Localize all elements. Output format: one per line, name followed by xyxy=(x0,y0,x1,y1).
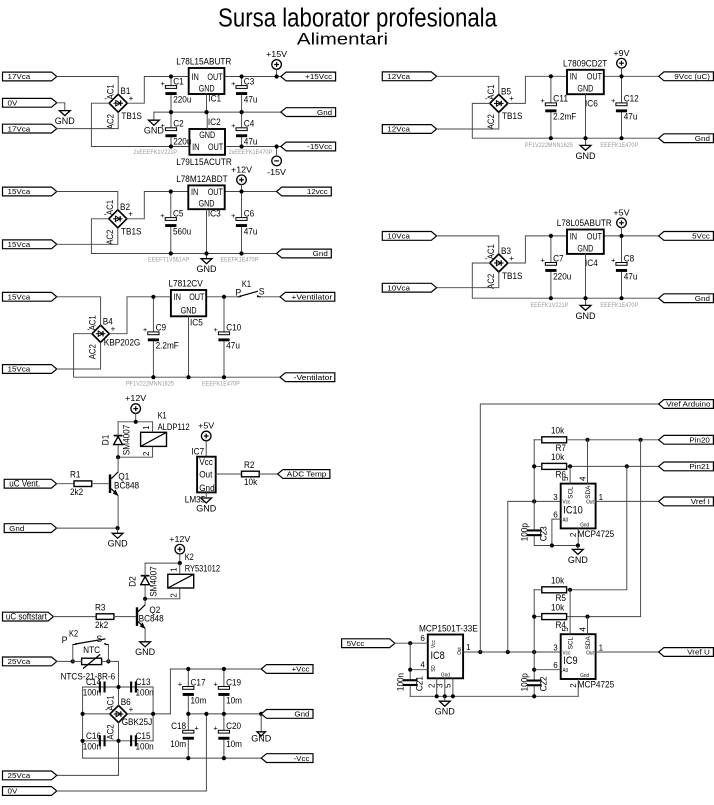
svg-text:SM4007: SM4007 xyxy=(122,425,132,456)
relay coil K1 ALDP112 xyxy=(141,422,167,457)
wire pullup vertical IC9 xyxy=(533,590,535,679)
svg-text:C3: C3 xyxy=(244,76,255,86)
bridge rectifier B5 xyxy=(485,84,523,129)
wire pullup vertical IC10 xyxy=(533,440,535,502)
junction C5 bottom xyxy=(169,251,173,255)
wire snubber bottom row xyxy=(83,740,154,742)
svg-text:Out: Out xyxy=(457,647,463,655)
svg-text:6: 6 xyxy=(420,634,425,643)
wire B2 minus to gnd rail xyxy=(91,219,276,254)
svg-text:C2: C2 xyxy=(173,119,184,129)
svg-text:Gnd: Gnd xyxy=(441,672,450,678)
svg-text:GND: GND xyxy=(196,503,217,513)
regulator IC2 L79L15ACUTR xyxy=(176,117,232,167)
svg-text:47u: 47u xyxy=(244,137,258,147)
net flag 5Vcc xyxy=(659,232,714,241)
junction C1 bottom xyxy=(169,110,173,114)
wire IC8 pin2 stub xyxy=(436,678,438,696)
wire B5 minus to gnd rail xyxy=(472,103,658,138)
svg-text:+9V: +9V xyxy=(613,48,629,58)
svg-text:AC2: AC2 xyxy=(105,114,115,129)
svg-text:OUT: OUT xyxy=(189,292,205,302)
supply -15V xyxy=(267,156,286,177)
resistor R3 2k2 xyxy=(95,602,114,629)
junction B6 AC2 snubber xyxy=(116,739,120,743)
svg-text:K2: K2 xyxy=(69,629,78,639)
wire IC10 SCL riser xyxy=(569,466,571,483)
svg-text:+: + xyxy=(143,325,148,334)
svg-text:+15Vcc: +15Vcc xyxy=(305,72,332,81)
wire +12V to relay2 node xyxy=(179,554,181,563)
junction B6 AC1 snubber xyxy=(116,685,120,689)
svg-text:10m: 10m xyxy=(170,739,186,749)
wire Gnd to Q1 emitter xyxy=(57,527,118,529)
svg-text:+: + xyxy=(611,96,616,105)
svg-text:15Vca: 15Vca xyxy=(8,240,32,249)
svg-text:15Vca: 15Vca xyxy=(8,293,32,302)
wire B3 plus to 5V rail xyxy=(508,236,567,263)
junction IC10 gnd node xyxy=(576,543,580,547)
svg-text:SD: SD xyxy=(431,665,437,672)
svg-text:R3: R3 xyxy=(95,602,106,612)
wire IC8 pin3 stub xyxy=(444,678,446,696)
svg-text:Gnd: Gnd xyxy=(580,673,589,679)
wire gnd rail section1 horizontal xyxy=(154,111,281,113)
wire IC1 GND pin xyxy=(206,94,208,112)
net flag uC Vent. xyxy=(4,478,56,489)
voltage reference IC8 MCP1501T-33E xyxy=(419,624,478,688)
junction C3 top xyxy=(240,74,244,78)
svg-text:560u: 560u xyxy=(173,226,191,236)
wire IC9 SCL riser xyxy=(569,590,571,634)
net flag Vref U xyxy=(659,648,714,657)
net flag Gnd section5 xyxy=(659,294,714,303)
wire IC4 GND pin xyxy=(585,254,587,298)
part code C6 xyxy=(221,257,259,264)
svg-text:A0: A0 xyxy=(563,668,569,674)
transistor Q1 BC848 xyxy=(109,471,139,496)
wire B1 plus to +15 rail xyxy=(127,77,189,104)
svg-text:C13: C13 xyxy=(136,677,151,687)
svg-text:-: - xyxy=(104,94,107,103)
junction IC10 Vcc pullups xyxy=(532,499,536,503)
ground symbol section4 xyxy=(576,138,597,161)
svg-text:C19: C19 xyxy=(226,677,241,687)
svg-text:C20: C20 xyxy=(226,721,241,731)
resistor R1 2k2 xyxy=(70,470,92,497)
resistor R2 10k xyxy=(242,460,260,487)
junction IC3 gnd xyxy=(204,251,208,255)
svg-text:OUT: OUT xyxy=(207,72,223,82)
net flag 25Vca (bottom) xyxy=(3,771,57,780)
wire snubber right column xyxy=(152,687,154,741)
svg-text:Sursa laborator profesionala: Sursa laborator profesionala xyxy=(218,5,498,33)
resistor R7 10k xyxy=(542,426,567,453)
svg-text:D1: D1 xyxy=(101,435,111,446)
part code C10 xyxy=(202,380,240,387)
capacitor C3 xyxy=(231,76,257,112)
part code C9 xyxy=(126,380,174,387)
supply +5V LM35 xyxy=(198,421,214,441)
wire C23 top segment xyxy=(533,501,535,529)
capacitor C21 xyxy=(396,673,425,691)
junction R6 left tee xyxy=(532,464,536,468)
relay K1 name xyxy=(158,410,167,420)
svg-text:Out: Out xyxy=(586,500,594,506)
junction pin2 gnd xyxy=(435,694,439,698)
svg-text:IC8: IC8 xyxy=(431,650,445,662)
junction C11 bottom xyxy=(549,136,553,140)
junction C1 top xyxy=(169,74,173,78)
svg-text:Gnd: Gnd xyxy=(317,108,332,117)
net flag uC softstart xyxy=(3,611,54,622)
junction B6 minus tee xyxy=(81,712,85,716)
switch K2 contact xyxy=(73,639,109,645)
wire +5V to IC7 xyxy=(205,441,207,457)
regulator IC1 L78L15ABUTR xyxy=(176,57,231,104)
capacitor C7 xyxy=(540,236,571,298)
wire R2 to ADC Temp flag xyxy=(259,473,277,475)
junction SD tee xyxy=(408,668,412,672)
svg-text:EEEFK1V221P: EEEFK1V221P xyxy=(531,302,569,309)
net flag Gnd bottom xyxy=(261,710,313,719)
svg-text:Out: Out xyxy=(586,650,594,656)
title xyxy=(218,5,498,33)
capacitor C12 xyxy=(611,76,639,138)
wire gnd rail section1 xyxy=(153,112,155,120)
svg-text:100p: 100p xyxy=(520,673,530,691)
supply +12V relay1 xyxy=(125,393,146,413)
net flag +15Vcc xyxy=(281,72,336,81)
net flag 5Vcc input xyxy=(342,639,395,648)
svg-text:1: 1 xyxy=(466,643,471,652)
svg-text:-Ventilator: -Ventilator xyxy=(294,373,333,382)
junction Vref Arduino riser xyxy=(478,650,482,654)
svg-text:IC6: IC6 xyxy=(585,98,598,108)
switch K2 S label xyxy=(96,634,102,644)
svg-text:KBP202G: KBP202G xyxy=(104,338,141,348)
svg-text:+: + xyxy=(213,680,218,689)
wire relay2 bottom link xyxy=(145,598,180,600)
capacitor C20 xyxy=(213,714,242,758)
DAC IC9 MCP4725 xyxy=(553,627,614,690)
svg-text:6: 6 xyxy=(553,511,558,520)
svg-text:6: 6 xyxy=(553,661,558,670)
svg-text:2.2mF: 2.2mF xyxy=(553,112,577,122)
junction Pin20 bus xyxy=(639,438,643,442)
svg-text:R1: R1 xyxy=(70,470,81,480)
junction Pin21 bus xyxy=(625,464,629,468)
svg-text:+5V: +5V xyxy=(198,421,214,431)
svg-text:Pin21: Pin21 xyxy=(689,462,710,471)
ground symbol bottom left xyxy=(251,714,272,744)
svg-text:EEEFK1E470P: EEEFK1E470P xyxy=(221,257,259,264)
svg-text:+: + xyxy=(161,121,166,130)
net flag 15Vca fan (bottom) xyxy=(3,365,57,374)
svg-text:C11: C11 xyxy=(553,94,568,104)
wire IC5 OUT to switch xyxy=(206,296,237,298)
subtitle xyxy=(297,30,388,48)
junction C6 top xyxy=(239,189,243,193)
svg-text:B2: B2 xyxy=(120,202,130,212)
junction C20 bottom xyxy=(222,756,226,760)
svg-text:2: 2 xyxy=(569,532,578,537)
wire K2 contact left riser xyxy=(72,645,74,662)
resistor R4 10k xyxy=(542,602,567,629)
svg-text:L78L05ABUTR: L78L05ABUTR xyxy=(557,218,612,228)
svg-text:C5: C5 xyxy=(173,208,184,218)
svg-text:100n: 100n xyxy=(136,741,154,751)
wire IC2 GND pin xyxy=(206,112,208,129)
net flag Gnd section4 xyxy=(659,134,714,143)
svg-text:+: + xyxy=(213,724,218,733)
wire IC10 SDA riser xyxy=(587,440,589,484)
svg-text:TB1S: TB1S xyxy=(502,271,523,281)
wire B2 plus to 12V rail xyxy=(127,192,189,219)
net flag 12vcc xyxy=(277,187,332,196)
supply +12V relay2 xyxy=(169,534,190,554)
regulator IC4 L78L05ABUTR xyxy=(557,218,612,268)
svg-text:GND: GND xyxy=(251,734,272,744)
capacitor C23 xyxy=(520,523,549,541)
junction SDA pullup xyxy=(585,438,589,442)
svg-text:GBK25J: GBK25J xyxy=(122,717,153,727)
svg-text:L79L15ACUTR: L79L15ACUTR xyxy=(176,157,232,167)
svg-text:2xEEEFK1E470P: 2xEEEFK1E470P xyxy=(229,149,273,156)
junction NTC left xyxy=(71,659,75,663)
wire snubber top row xyxy=(83,686,154,688)
svg-text:OUT: OUT xyxy=(587,231,603,241)
junction R4 left tee xyxy=(532,615,536,619)
junction D1 collector xyxy=(116,455,120,459)
svg-text:TB1S: TB1S xyxy=(121,227,142,237)
net flag +Vcc xyxy=(261,665,313,674)
svg-text:PF1V222MNN1625: PF1V222MNN1625 xyxy=(525,142,573,149)
wire -Vcc rail xyxy=(83,757,262,759)
svg-text:K1: K1 xyxy=(242,279,251,289)
junction C8 bottom xyxy=(619,296,623,300)
svg-text:C12: C12 xyxy=(624,94,639,104)
net flag 15Vca fan (top) xyxy=(3,292,57,301)
svg-text:P: P xyxy=(235,287,241,297)
wire B6 AC2 to 25Vca xyxy=(57,723,119,776)
svg-text:10m: 10m xyxy=(191,695,207,705)
svg-text:220u: 220u xyxy=(173,94,191,104)
part code C4 xyxy=(229,149,273,156)
junction C9 top xyxy=(151,295,155,299)
svg-text:IN: IN xyxy=(191,187,198,197)
wire B6 plus lead xyxy=(127,669,261,714)
svg-text:L78L15ABUTR: L78L15ABUTR xyxy=(176,57,231,67)
svg-text:47u: 47u xyxy=(226,341,240,351)
supply +12V section2 xyxy=(231,164,252,184)
wire collector Q2 xyxy=(144,599,146,605)
svg-text:Gnd: Gnd xyxy=(580,522,589,528)
wire relay1 top link xyxy=(118,421,153,423)
svg-text:+5V: +5V xyxy=(613,207,629,217)
wire 5Vcc to IC8 xyxy=(395,642,428,644)
bridge rectifier B4 xyxy=(87,315,140,359)
svg-text:IC3: IC3 xyxy=(208,209,221,219)
svg-text:+: + xyxy=(160,211,165,220)
svg-text:C10: C10 xyxy=(226,323,241,333)
capacitor C1 xyxy=(161,76,192,112)
svg-text:K2: K2 xyxy=(185,552,194,562)
junction C3 bottom xyxy=(240,110,244,114)
junction D2 collector xyxy=(143,597,147,601)
junction C22 gnd rail xyxy=(532,694,536,698)
wire -15V stub xyxy=(276,147,278,157)
capacitor C14 xyxy=(83,677,106,697)
svg-text:R4: R4 xyxy=(556,620,567,630)
svg-text:2k2: 2k2 xyxy=(95,620,108,630)
svg-text:SM4007: SM4007 xyxy=(149,566,159,597)
svg-text:S: S xyxy=(96,634,102,644)
svg-text:B6: B6 xyxy=(121,697,131,707)
thermistor NTC xyxy=(82,645,102,669)
svg-text:-15Vcc: -15Vcc xyxy=(307,142,332,151)
diode D1 SM4007 xyxy=(101,425,132,458)
svg-text:9Vcc (uC): 9Vcc (uC) xyxy=(674,72,710,81)
capacitor C8 xyxy=(611,236,637,298)
svg-text:C14: C14 xyxy=(86,677,101,687)
wire B6 AC1 stub xyxy=(118,687,120,705)
svg-text:AC2: AC2 xyxy=(106,724,116,739)
svg-text:C1: C1 xyxy=(173,76,184,86)
svg-text:+12V: +12V xyxy=(169,534,190,544)
wire C21 riser top xyxy=(409,643,411,679)
wire B1 minus to -15 rail xyxy=(91,103,189,146)
capacitor C13 xyxy=(130,677,154,697)
svg-text:10k: 10k xyxy=(551,426,565,436)
junction pin5 gnd xyxy=(451,694,455,698)
net flag 0V xyxy=(3,98,57,107)
svg-text:AC2: AC2 xyxy=(88,344,98,359)
svg-text:R6: R6 xyxy=(556,470,567,480)
ground symbol IC7 xyxy=(196,498,217,513)
svg-text:+: + xyxy=(161,79,166,88)
capacitor C10 xyxy=(214,297,242,377)
capacitor C9 xyxy=(143,297,179,377)
junction C4 bottom xyxy=(240,144,244,148)
wire Vref Arduino riser xyxy=(480,404,658,652)
wire IC8 Out row xyxy=(463,651,561,653)
junction C10 bottom xyxy=(222,375,226,379)
diode D2 SM4007 xyxy=(128,566,159,599)
wire B5 AC2 to 12Vca xyxy=(437,112,499,129)
wire IC6 GND pin xyxy=(585,94,587,138)
wire SDA bus vertical xyxy=(567,440,641,617)
wire 9V rail OUT to flag xyxy=(604,75,659,77)
svg-text:IN: IN xyxy=(570,231,577,241)
wire IC10 Vcc riser xyxy=(508,501,561,652)
svg-text:C7: C7 xyxy=(553,253,564,263)
wire IC8 gnd rail xyxy=(410,695,578,697)
svg-text:+Vcc: +Vcc xyxy=(292,665,310,674)
wire IC5 GND pin xyxy=(188,316,190,377)
junction IC9 SDA tee xyxy=(585,615,589,619)
junction C9 bottom xyxy=(151,375,155,379)
svg-text:SCL: SCL xyxy=(569,636,575,649)
junction IC9 SCL tee xyxy=(568,588,572,592)
wire IC8 SD pin xyxy=(410,669,428,671)
wire IC10 Out to Vref I xyxy=(596,500,659,502)
svg-text:-15V: -15V xyxy=(267,167,286,177)
net flag Pin21 xyxy=(659,462,714,471)
svg-text:Vref I: Vref I xyxy=(691,497,710,506)
net flag ADC Temp xyxy=(278,470,330,479)
svg-text:TB1S: TB1S xyxy=(502,111,523,121)
wire IC10 A0 link xyxy=(552,519,561,545)
svg-text:+: + xyxy=(214,325,219,334)
resistor R6 10k xyxy=(542,452,567,479)
junction pin3 gnd xyxy=(443,694,447,698)
junction C18 bottom xyxy=(186,756,190,760)
svg-text:GND: GND xyxy=(577,84,593,94)
junction C7 top xyxy=(549,234,553,238)
svg-text:MCP4725: MCP4725 xyxy=(578,679,615,689)
svg-text:+15V: +15V xyxy=(266,49,287,59)
wire Q1 emitter down xyxy=(117,496,119,528)
svg-text:4: 4 xyxy=(578,476,587,481)
svg-text:GND: GND xyxy=(197,264,218,274)
part code C2 xyxy=(134,149,178,156)
svg-text:C6: C6 xyxy=(244,208,255,218)
svg-text:-: - xyxy=(104,210,107,219)
net flag 25Vca (top) xyxy=(3,657,57,666)
svg-text:5Vcc: 5Vcc xyxy=(692,232,710,241)
svg-text:Vref Arduino: Vref Arduino xyxy=(666,400,711,409)
svg-text:OUT: OUT xyxy=(208,142,224,152)
svg-text:Gnd: Gnd xyxy=(695,294,710,303)
wire 17Vca to B1 AC1 xyxy=(57,77,118,95)
svg-text:MCP4725: MCP4725 xyxy=(578,529,615,539)
svg-text:BC848: BC848 xyxy=(114,481,139,491)
svg-text:0V: 0V xyxy=(8,787,18,796)
svg-text:C17: C17 xyxy=(191,677,206,687)
svg-text:-: - xyxy=(87,325,90,334)
svg-text:10Vca: 10Vca xyxy=(387,232,411,241)
wire R3 to Q2 base xyxy=(114,616,136,618)
svg-text:OUT: OUT xyxy=(208,187,224,197)
svg-text:4: 4 xyxy=(578,627,587,632)
svg-text:IC10: IC10 xyxy=(563,505,582,517)
svg-text:L7812CV: L7812CV xyxy=(169,279,203,289)
svg-text:2.2mF: 2.2mF xyxy=(156,341,180,351)
switch K1 S label xyxy=(259,286,265,296)
svg-text:PF1V222MNN1625: PF1V222MNN1625 xyxy=(126,380,174,387)
svg-text:5Vcc: 5Vcc xyxy=(347,639,365,648)
ground symbol section1 xyxy=(144,120,165,135)
junction IC4 gnd xyxy=(583,296,587,300)
wire relay2 top link xyxy=(145,562,180,564)
svg-text:IC7: IC7 xyxy=(191,446,204,456)
wire IC9 A0 link xyxy=(534,669,561,671)
svg-text:EEEFK1E470P: EEEFK1E470P xyxy=(202,380,240,387)
svg-text:GND: GND xyxy=(576,151,597,161)
svg-text:10k: 10k xyxy=(244,477,258,487)
wire +12V stub section2 xyxy=(241,184,243,191)
wire R6 left xyxy=(534,465,542,467)
svg-text:+: + xyxy=(231,211,236,220)
net flag 0V (bottom) xyxy=(3,787,57,796)
wire -15 rail OUT to flag xyxy=(225,146,281,148)
part code C7 xyxy=(531,302,569,309)
wire R6 right to Pin21 xyxy=(567,465,659,467)
svg-text:10m: 10m xyxy=(226,695,242,705)
junction C11 top xyxy=(549,74,553,78)
junction IC10 Vcc riser xyxy=(506,650,510,654)
